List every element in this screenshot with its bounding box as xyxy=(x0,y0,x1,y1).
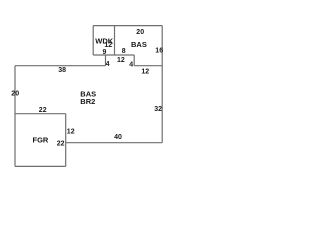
wire FGR bottom edge xyxy=(15,165,66,167)
svg-text:12: 12 xyxy=(67,128,75,135)
svg-text:4: 4 xyxy=(129,61,133,68)
svg-text:FGR: FGR xyxy=(33,136,49,145)
wire top edge of upper BAS/WDK box xyxy=(93,25,162,27)
svg-text:12: 12 xyxy=(141,68,149,75)
wire WDK left edge xyxy=(92,26,94,55)
wire connector x=105.5 xyxy=(105,55,107,66)
wire WDK bottom + step bottom xyxy=(93,54,134,56)
svg-text:16: 16 xyxy=(155,48,163,55)
wire step down at x=134 xyxy=(133,55,135,66)
svg-text:9: 9 xyxy=(103,49,107,56)
wire right edge full height xyxy=(161,26,163,143)
svg-text:BR2: BR2 xyxy=(80,97,95,106)
wire FGR right edge xyxy=(65,114,67,167)
svg-text:32: 32 xyxy=(154,106,162,113)
wire main bottom edge xyxy=(66,142,163,144)
wire FGR top edge xyxy=(15,113,66,115)
svg-text:BAS: BAS xyxy=(131,40,147,49)
wire WDK/BAS divider xyxy=(114,26,116,55)
wire main/FGR left edge xyxy=(14,66,16,167)
svg-text:22: 22 xyxy=(39,107,47,114)
svg-text:20: 20 xyxy=(11,91,19,98)
svg-text:22: 22 xyxy=(57,140,65,147)
wire main top edge xyxy=(15,65,106,67)
svg-text:38: 38 xyxy=(58,67,66,74)
svg-text:12: 12 xyxy=(117,57,125,64)
svg-text:40: 40 xyxy=(114,134,122,141)
wire edge y=65.7 from step to right xyxy=(134,65,162,67)
svg-text:20: 20 xyxy=(136,29,144,36)
svg-text:4: 4 xyxy=(106,61,110,68)
svg-text:8: 8 xyxy=(122,48,126,55)
